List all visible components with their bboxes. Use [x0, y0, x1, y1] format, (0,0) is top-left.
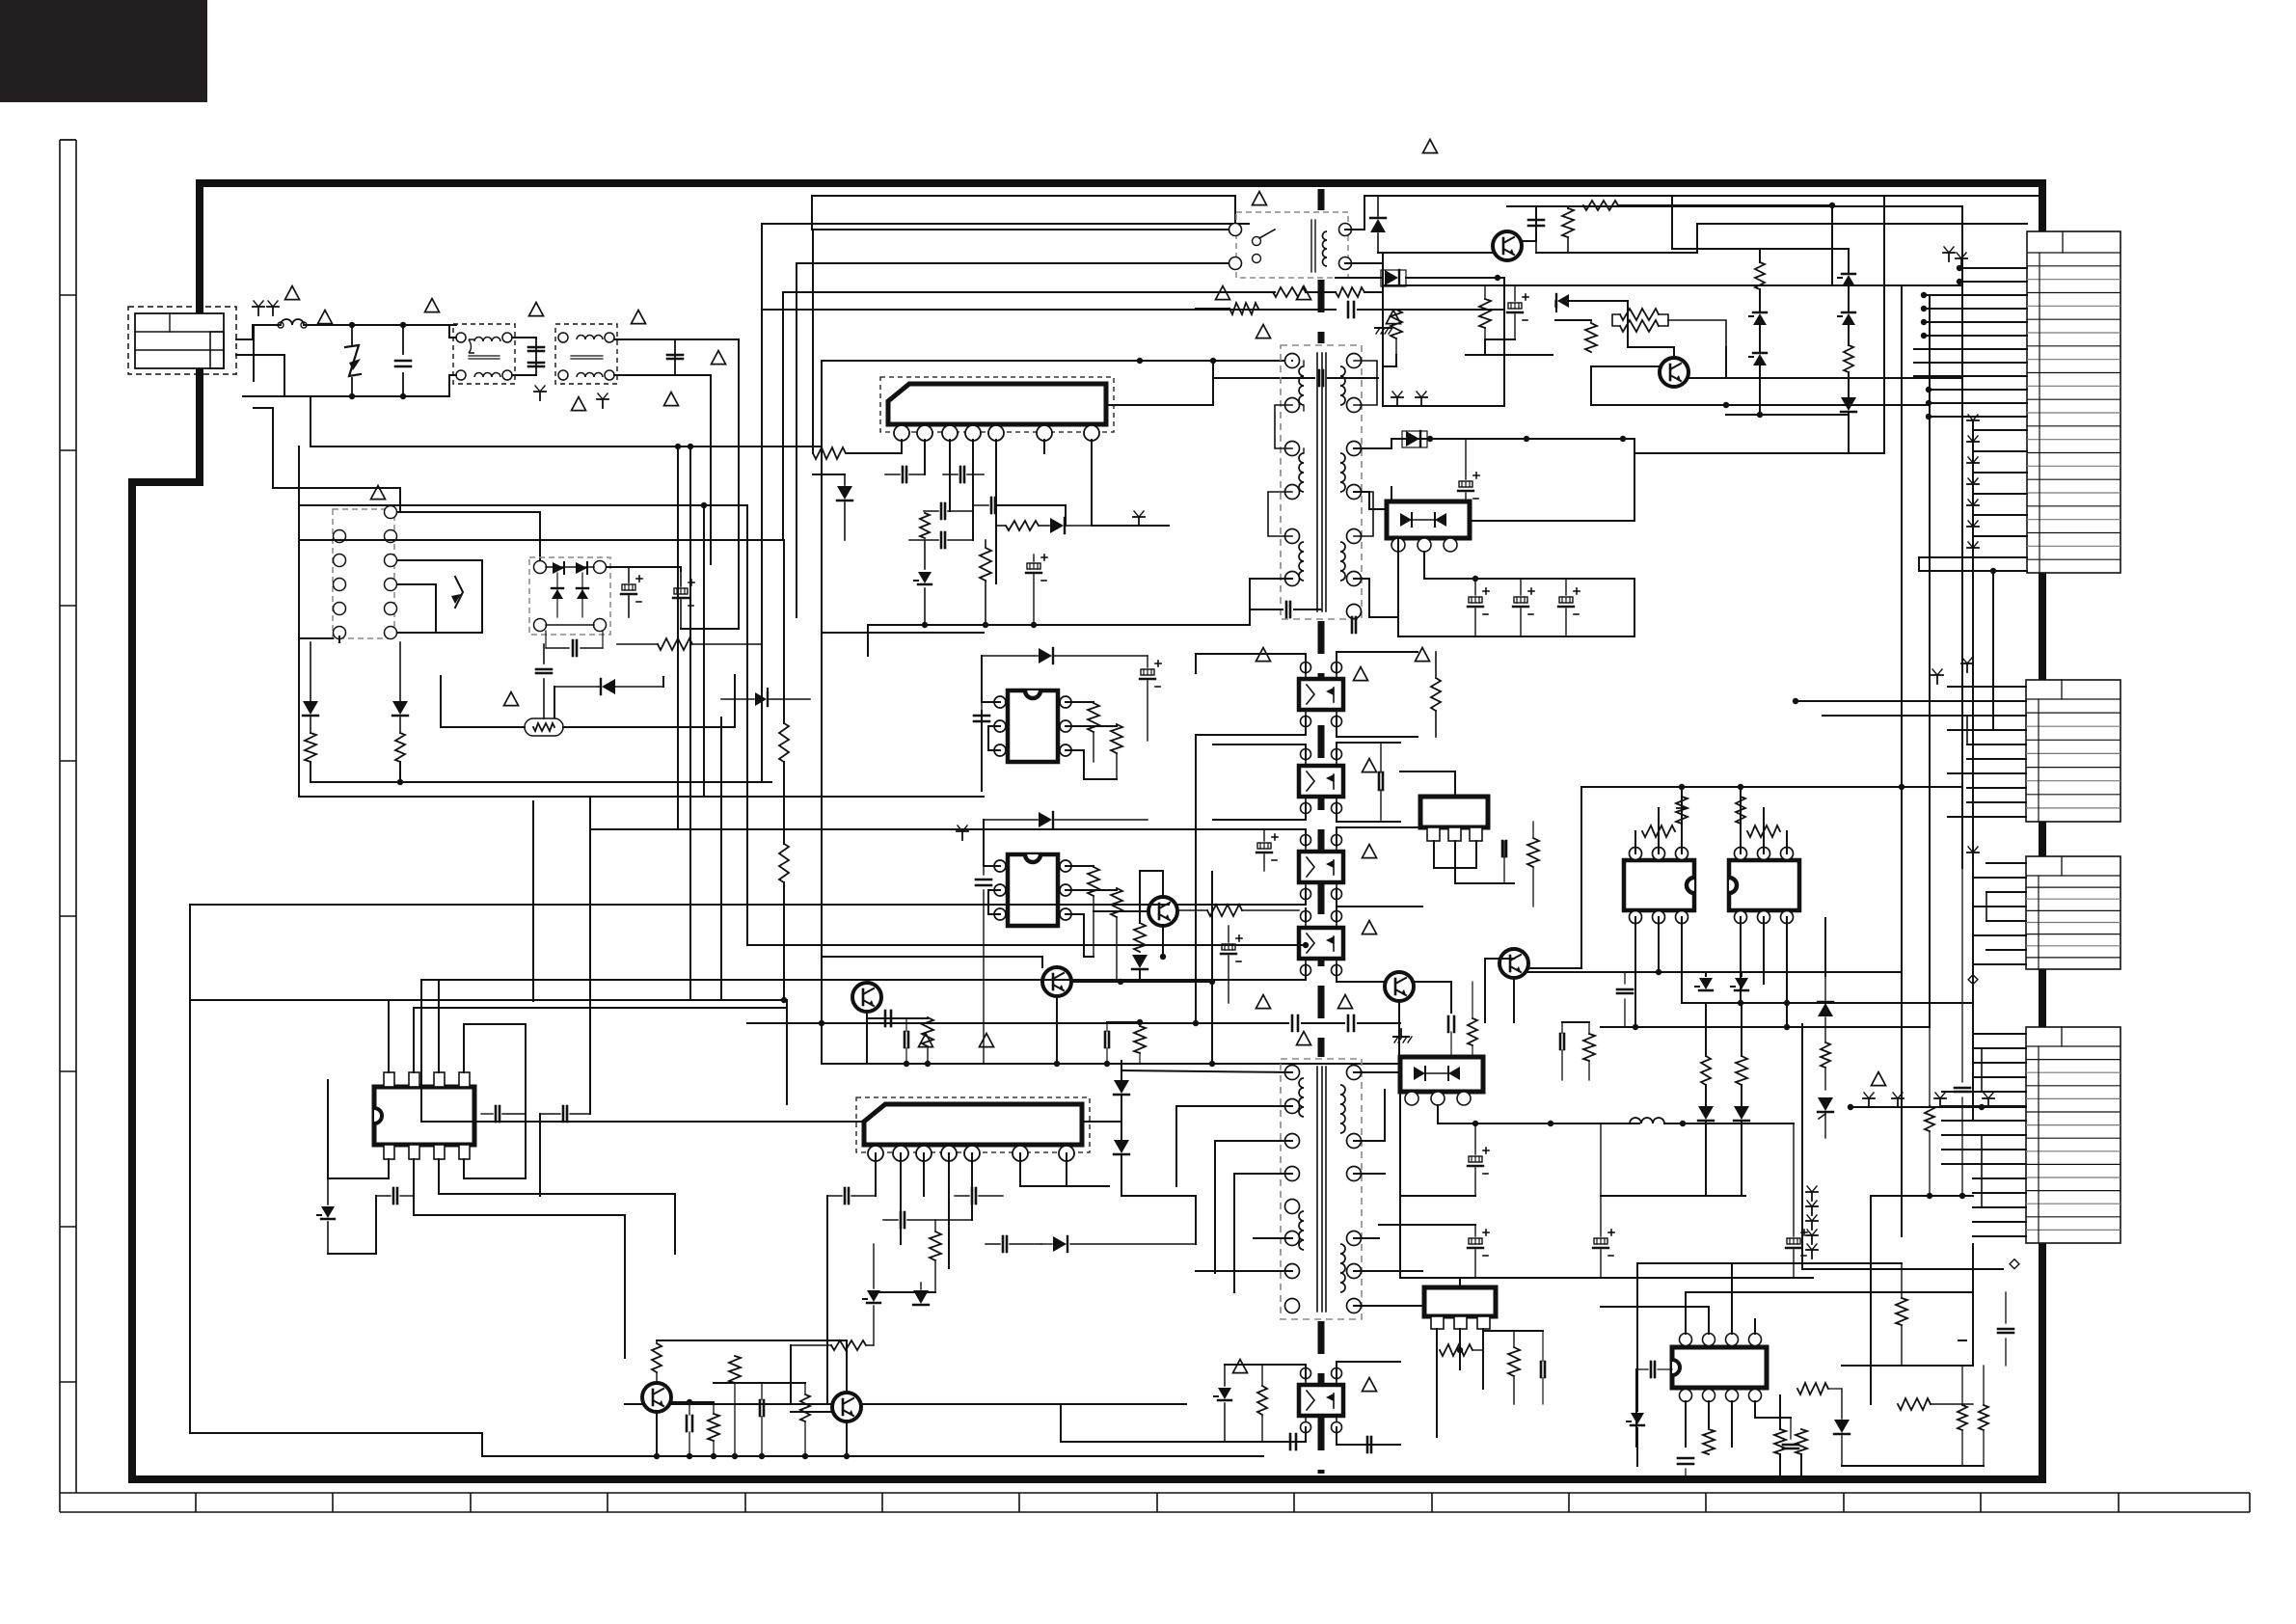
resistor R730	[1468, 1018, 1477, 1045]
cap C736	[1617, 988, 1633, 991]
left bundle riser C	[703, 505, 705, 797]
cap C763	[1955, 1087, 1970, 1090]
diode D725	[1818, 1097, 1833, 1111]
T701 core lines	[1316, 353, 1318, 611]
wire T701 pin6 to IC bus	[1250, 579, 1292, 625]
Y-cap across barrier bottom C766	[1366, 1437, 1369, 1452]
top bus y=816	[1581, 786, 1962, 788]
wire PC703 output	[1337, 827, 1422, 846]
thermal fuse oval with element	[525, 718, 563, 736]
degauss connector socket	[333, 509, 394, 638]
wire riser x=1240	[1195, 1196, 1197, 1244]
warning triangle	[285, 286, 300, 300]
wire Q709	[846, 1421, 848, 1456]
cap C751	[844, 1188, 847, 1204]
wire standby secondary loop	[1345, 196, 1378, 230]
right vertical bus x=1990	[1918, 557, 1920, 571]
wire x=1893 riser	[1824, 918, 1826, 976]
zener column x=1917	[1842, 275, 1855, 286]
transistor Q706 right	[1385, 972, 1414, 1001]
wire	[1364, 291, 1383, 293]
long bus y=676 left	[747, 651, 1306, 653]
load resistor R705	[1562, 208, 1574, 237]
wire bus y=992	[822, 956, 1042, 958]
converter hybrid IC701 (STR type)	[880, 377, 1114, 432]
resistor R737	[1676, 807, 1688, 809]
left risers x=790..852	[761, 224, 763, 782]
diode D753	[1053, 1236, 1067, 1252]
cap C760	[1650, 1362, 1653, 1377]
wire y=296-298 long run	[1383, 284, 1962, 286]
right vertical bus x=2046	[1972, 420, 1974, 1119]
wire IC705 aux pins	[1020, 1185, 1109, 1187]
wire left of Q707	[1484, 959, 1486, 1022]
AC inlet plug J701	[128, 307, 236, 374]
wire IC703 bottom	[1083, 914, 1085, 957]
resistor R760	[1896, 1298, 1907, 1325]
input diode D723	[1039, 812, 1052, 827]
wire	[783, 762, 785, 844]
capacitor C735	[1501, 841, 1504, 856]
IC703 right pin wires	[1066, 865, 1094, 867]
wire PC704 drive	[1305, 964, 1307, 980]
resistor R733	[1527, 838, 1539, 867]
wire	[554, 687, 555, 717]
wire riser x=900	[867, 625, 869, 656]
wire ground return rail	[310, 762, 311, 782]
wire barrier caps	[1250, 609, 1283, 610]
CN702 riser feed	[1992, 571, 1994, 730]
long bus y=1163 (output ground return)	[421, 1121, 1121, 1123]
cap C744	[686, 1416, 689, 1431]
wire y=392	[1215, 377, 1314, 379]
CN704 gnd bracket lower	[1981, 1135, 1983, 1207]
driver transistor Q703	[852, 983, 881, 1012]
wire to Q701 base rail	[1383, 252, 1494, 254]
electrolytic C723	[1469, 597, 1482, 603]
zener pair D726/D727 x=1769	[1699, 978, 1713, 989]
IC704 top pin wires	[388, 1000, 390, 1072]
wire bottom	[328, 1253, 376, 1255]
wire base link	[762, 1382, 805, 1384]
bus y=303 with series resistors	[783, 291, 1275, 293]
T703 secondary winding	[1340, 1085, 1345, 1133]
connector CN703	[2026, 856, 2120, 969]
IC704 bottom pin wires	[388, 1159, 390, 1178]
T701 secondary winding 2	[1340, 453, 1345, 492]
bleeder resistor RX1	[305, 733, 316, 762]
wire right riser x=1900	[1831, 205, 1833, 285]
wire y=1037 bus	[191, 999, 787, 1001]
long riser x=1257	[1211, 872, 1213, 1061]
wire	[1306, 291, 1336, 293]
wire x=1954 vertical	[1883, 196, 1885, 453]
wire from T701 pin bottom	[1354, 579, 1398, 617]
wire y=1355	[1601, 1306, 1709, 1308]
wire y=540 rail	[1391, 520, 1634, 522]
long bus y=1190	[190, 905, 482, 1433]
electrolytic C721	[1027, 563, 1040, 569]
wire	[1196, 308, 1229, 310]
wire Q708 base	[671, 1401, 714, 1403]
resistor ladder y=1490 x=1840..1870	[1774, 1429, 1786, 1454]
wire ground rail y=1103	[822, 1063, 1475, 1065]
bridge diode D-a	[553, 562, 564, 574]
wire IC707 out down	[1436, 1350, 1438, 1437]
T701 primary winding 1	[1299, 366, 1304, 405]
DIP pair top pin wires	[1634, 831, 1636, 853]
resistor R756	[1703, 1429, 1715, 1454]
wire reg top feed	[1400, 743, 1420, 797]
wire pin rails down	[924, 440, 926, 474]
series resistor R706	[1583, 201, 1618, 210]
resistor R753	[1440, 1344, 1472, 1356]
warning triangle	[318, 311, 333, 324]
cap C745	[759, 1400, 762, 1416]
IC705 pin wires down	[875, 1153, 877, 1196]
wire from T701 sec pin4	[1354, 492, 1391, 509]
optocoupler PC701	[1299, 679, 1343, 710]
long bus (y=524)	[299, 504, 747, 506]
resistor R724	[1111, 724, 1122, 753]
resistor R762	[1898, 1398, 1931, 1410]
IC707 leg wires	[1436, 1329, 1438, 1350]
wire bottom rail y=1316	[1802, 1268, 2003, 1270]
T703 primary winding	[1299, 1078, 1304, 1117]
dual rectifier module D754 (heavy box)	[1400, 1057, 1483, 1092]
resistor R726	[1111, 888, 1122, 917]
T701 primary pins	[1285, 354, 1300, 368]
ground symbols under filters	[539, 392, 541, 400]
resistor R751	[930, 1232, 941, 1260]
ground rail y=648	[868, 624, 1250, 626]
zener stack column x=1825	[1755, 262, 1765, 289]
ground symbols above inlet wiring	[257, 307, 259, 315]
sense resistor R720	[1006, 521, 1039, 530]
electrolytic C725	[1559, 597, 1573, 603]
main transformer T701 (dashed box crossing barrier)	[1281, 345, 1362, 619]
wire PC702 output	[1337, 743, 1400, 760]
cap C734	[1447, 1016, 1450, 1032]
wire AC top rail	[304, 324, 449, 326]
warning triangle near CN704	[1872, 1072, 1886, 1086]
resistor R739	[1736, 797, 1745, 824]
zener D730 bottom left of CN704	[1631, 1413, 1644, 1424]
rectifier diode D703	[1370, 219, 1386, 232]
vertical riser x=310	[298, 447, 300, 540]
riser x=612	[589, 797, 591, 1000]
riser x=816 long	[786, 1000, 788, 1104]
wire PC704 input	[1305, 908, 1307, 922]
CN703 feed wires	[1986, 862, 2026, 864]
wire riser x=1560	[1503, 278, 1505, 310]
Y-caps under T701 on barrier	[1285, 602, 1288, 617]
wire IC702 bottom rail	[1083, 750, 1085, 779]
driver transistor Q709	[832, 1393, 861, 1421]
T701 secondary pins	[1347, 354, 1362, 368]
bus y=203 top	[812, 196, 1235, 230]
resistor R728	[922, 1017, 933, 1046]
capacitor C718	[940, 503, 943, 519]
bottom optocoupler PC705	[1299, 1385, 1343, 1416]
choke L751	[1630, 1118, 1664, 1123]
wire IC704 to driver stage	[414, 1215, 625, 1358]
surge diode DX1	[303, 701, 318, 715]
cap C728	[976, 879, 991, 881]
wire left riser x=500	[481, 1433, 483, 1456]
divider resistor R715b	[779, 844, 789, 882]
resistor R741	[1821, 1042, 1830, 1068]
bus y=1008	[1514, 971, 1902, 973]
schematic border frame (heavy outline with notch)	[132, 183, 2042, 1479]
long bus y=938 from left	[191, 904, 1169, 906]
hot-side rail into caps	[1195, 735, 1197, 1023]
long primary feedback bus A	[299, 539, 739, 541]
bleeder resistor RX2	[395, 733, 405, 762]
wire PC701 output right	[1337, 652, 1418, 673]
wire neutral from inlet	[236, 355, 284, 396]
wire Q708 collector top to IC704 area	[624, 1358, 626, 1404]
CN702 long feed row 3	[1823, 715, 2026, 717]
wire live from inlet	[236, 325, 281, 339]
right vertical bus x=1972	[1901, 285, 1903, 1236]
surge diode DX2	[392, 701, 408, 715]
wire y=1340 bus	[1686, 1291, 1973, 1293]
Y-caps under opto column	[1291, 1015, 1294, 1031]
T702 core	[1310, 220, 1312, 272]
left margin ruler	[60, 140, 76, 1493]
damper diode D716	[837, 486, 852, 500]
wire Q702 connections	[1628, 301, 1674, 358]
transistor Q707	[1499, 949, 1528, 978]
CN701 bottom rows	[1919, 570, 2027, 572]
right-bottom resistor ladder x=2035	[1958, 1340, 1967, 1341]
electrolytic C724	[1514, 597, 1527, 603]
resistor R713	[1336, 287, 1364, 297]
wire to riser	[812, 405, 814, 453]
warning triangle	[529, 303, 544, 316]
riser x=852	[821, 447, 823, 633]
left bundle riser B	[689, 447, 691, 1000]
line filter L702	[555, 324, 617, 384]
wire	[874, 1291, 935, 1293]
IC706 leg wires	[1433, 841, 1435, 868]
warning triangle	[371, 486, 386, 500]
capacitor under bridge	[572, 640, 575, 656]
capacitor C719	[940, 532, 943, 548]
bus y=1065	[1601, 1026, 1930, 1028]
wire right bottom rail continues	[1337, 1444, 1475, 1446]
3-terminal regulator IC706	[1420, 797, 1488, 827]
diamond terminal	[2010, 1259, 2019, 1269]
wire y=980 continues to PC704	[1303, 942, 1309, 948]
wire Q704	[1056, 996, 1058, 1064]
feedback cap C720	[990, 498, 993, 513]
secondary ground rail to CN704	[1850, 1106, 2026, 1108]
wire bottom rail y=1510	[482, 1455, 1263, 1457]
electrolytic C758	[1787, 1238, 1800, 1244]
cap C737	[1559, 1034, 1562, 1049]
wire Q708 down	[656, 1412, 658, 1456]
Y-cap on barrier C712	[1318, 370, 1321, 386]
riser x=310 lower	[298, 694, 300, 797]
cap C743	[392, 1188, 395, 1204]
wire y=1416	[1842, 1365, 1973, 1367]
resistor R729	[1207, 905, 1242, 916]
wire Q703 emitter	[866, 1012, 868, 1064]
T701 secondary winding 1	[1340, 366, 1345, 405]
wire bottom right rail	[1842, 1465, 1984, 1467]
wire y=455 secondary aux	[1391, 438, 1634, 440]
control IC703 (8-pin DIP, vertical)	[1008, 854, 1058, 926]
resistor R721	[658, 638, 692, 650]
wire IC704 out right	[464, 1024, 526, 1178]
wire Q702 emitter down	[1688, 347, 1726, 378]
diode column x=1163	[1114, 1080, 1129, 1094]
CN701 feed wires group3	[1914, 348, 2027, 350]
wire lower degauss return	[299, 638, 333, 694]
driver transistor Q705	[1148, 897, 1177, 926]
wire IC704 left pins	[328, 1080, 389, 1178]
wire PC705 pins	[1254, 1365, 1306, 1379]
connector CN702	[2026, 680, 2120, 822]
electrolytic C729	[1257, 843, 1271, 849]
divider resistor R715a	[779, 723, 789, 762]
wire	[783, 882, 785, 1000]
startup electrolytic C706	[1508, 303, 1522, 309]
hot/cold isolation barrier (heavy dashed line, broken at transformers)	[1318, 189, 1325, 210]
fast diode D707	[1406, 431, 1419, 447]
zener D752	[867, 1290, 880, 1302]
wire riser x=748	[720, 717, 722, 1000]
wire Q705 base left	[1094, 910, 1148, 912]
resistor R745	[729, 1356, 741, 1383]
CN701 feed wires group4	[1929, 389, 2027, 391]
T701 aux winding	[1299, 542, 1304, 581]
cap C764	[1998, 1328, 2013, 1331]
wire	[1358, 309, 1504, 311]
fuse F701	[281, 319, 304, 325]
cap C741	[495, 1106, 498, 1122]
resistor R763	[1958, 1405, 1967, 1430]
wire y=470 rail	[1634, 452, 1884, 454]
left bus from degauss to bottom	[299, 694, 590, 800]
optocoupler PC704	[1299, 928, 1343, 959]
wire	[1485, 338, 1515, 340]
long bus to transformer primary (y=560)	[739, 539, 783, 541]
warning triangles at T701	[1256, 325, 1271, 338]
wire Q706	[1360, 981, 1385, 983]
resistor R729b	[1134, 1026, 1146, 1053]
varistor Z701	[351, 325, 353, 345]
wire T701 pin2 loop	[1275, 405, 1292, 448]
resistor R702	[1229, 303, 1258, 314]
riser x=437	[420, 980, 422, 1122]
riser x=1940	[1870, 1196, 1872, 1404]
wire y=1062	[464, 1023, 526, 1025]
posistor arrow	[455, 577, 463, 608]
electrolytic C722	[1459, 481, 1472, 487]
zener D741	[321, 1206, 335, 1218]
wire IC702 left riser	[981, 711, 983, 791]
wire y=1310	[1637, 1262, 1902, 1264]
wire secondary bottom rails	[1400, 1195, 1475, 1197]
line filter L701	[453, 324, 515, 384]
resistor R710	[1585, 323, 1597, 352]
wire IC701 top bus to transformer	[1106, 361, 1213, 405]
warning triangles near optos	[1354, 667, 1368, 681]
long bus y=656 left part	[822, 632, 984, 634]
resistor R738	[1676, 797, 1688, 824]
resistor R757	[1797, 1383, 1828, 1394]
risers x=1769/1806 top	[1705, 972, 1707, 976]
cap C759	[1540, 1362, 1543, 1377]
relay contact symbol	[1253, 237, 1261, 246]
feedback divider riser x=813	[783, 540, 785, 723]
wire pin1 down-left	[847, 440, 902, 453]
wire Q707	[1528, 967, 1581, 969]
CN701 feed wires group2	[1924, 294, 2027, 296]
long mid bus y=1145	[787, 1104, 864, 1122]
diode D724	[1818, 1003, 1833, 1016]
wire secondary gnd rail y=660	[1398, 636, 1634, 637]
wires inlet rails to filter	[449, 324, 456, 326]
low diode D719	[602, 679, 615, 694]
riser x=553	[532, 801, 534, 1001]
wire D708 out	[1423, 552, 1425, 579]
feedback diode D718	[1050, 518, 1064, 533]
wire emitter bus right	[1726, 377, 1962, 379]
wire left rail x=1869	[1801, 1024, 1803, 1269]
wire top bus y=258	[1760, 248, 1849, 250]
wire from T701 sec pin to y455	[1354, 439, 1391, 448]
wire IC703 top feed	[1032, 797, 1034, 839]
T703 secondary pins	[1347, 1066, 1362, 1080]
wire y=430 mid rail	[1726, 414, 1849, 416]
right vertical bus x=2001	[1929, 295, 1931, 1027]
cap C753	[971, 1188, 974, 1204]
timer IC710 (8-pin DIP, bottom right)	[1672, 1347, 1767, 1388]
capacitor after filter C704	[674, 339, 676, 375]
wire inlet to relay contact loop	[253, 325, 255, 381]
wire	[1618, 204, 1832, 206]
Q708 collector resistor R743	[652, 1343, 662, 1372]
connector CN704	[2026, 1027, 2120, 1243]
wire PC704 output	[1336, 907, 1337, 922]
bottom margin ruler	[60, 1493, 2250, 1512]
cap C731b	[1104, 1032, 1107, 1047]
zener D720	[755, 692, 767, 706]
title block (solid dark header box)	[0, 0, 207, 102]
resistor R714	[1391, 310, 1402, 338]
bus y=238 relay drive	[813, 229, 1235, 230]
capacitor C731	[1378, 772, 1381, 790]
wire IC702 top feed	[1032, 633, 1034, 675]
T701 primary winding 2	[1299, 453, 1304, 492]
wire standby out to connector	[1697, 224, 2027, 253]
bus y=273 relay return	[797, 262, 1235, 264]
optocoupler PC703	[1299, 852, 1343, 882]
resistor R731	[1431, 678, 1441, 711]
control IC702 (8-pin DIP, vertical)	[1008, 690, 1058, 762]
wire filter output to rectifier bus	[675, 339, 739, 540]
wire T701 secondary tap brackets	[1354, 361, 1377, 405]
resistor R725	[1088, 867, 1099, 896]
capacitors between filters C702/C703	[535, 338, 537, 375]
Y-capacitor across barrier C711	[1347, 302, 1350, 317]
wire y=232 from riser to barrier	[762, 223, 1249, 225]
CN704 feed wires	[1973, 1033, 2026, 1035]
